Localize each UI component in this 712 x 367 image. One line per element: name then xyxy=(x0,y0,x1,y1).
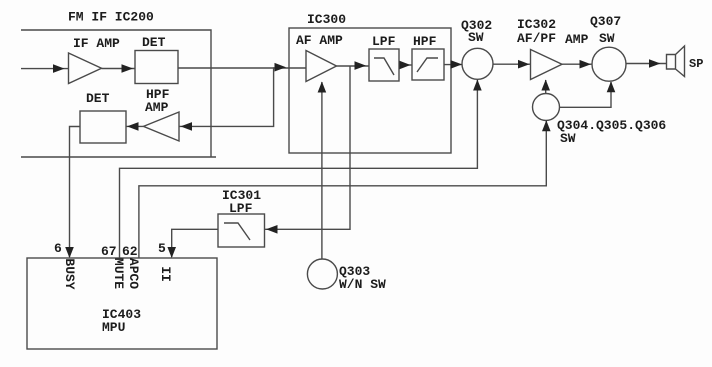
arrowhead up into Q302 bottom xyxy=(473,80,482,91)
wire tap down to HPF AMP input xyxy=(179,67,274,126)
svg-text:5: 5 xyxy=(158,241,166,256)
svg-text:MUTE: MUTE xyxy=(111,258,126,289)
arrowhead up into Q307 bottom xyxy=(607,81,616,92)
svg-text:LPF: LPF xyxy=(229,201,253,216)
speaker SP symbol xyxy=(667,46,685,77)
amplifier HPF AMP triangle xyxy=(144,112,180,141)
block IC403 MPU box xyxy=(27,258,217,349)
LPF response glyph xyxy=(374,58,394,75)
wire Q303 to AF AMP bottom xyxy=(321,82,323,259)
block IC200 box xyxy=(21,30,216,157)
svg-text:II: II xyxy=(158,266,173,282)
transistor Q303 W/N SW circle xyxy=(307,259,337,289)
arrowhead down into MPU pin 5 xyxy=(167,247,176,258)
wire DET to AF AMP xyxy=(178,67,306,69)
svg-text:FM IF IC200: FM IF IC200 xyxy=(68,10,154,25)
arrowhead up into Q304 circle bottom xyxy=(542,120,551,131)
arrowhead before DET xyxy=(122,64,134,73)
arrowhead up into IC302 bottom xyxy=(541,80,550,91)
svg-text:SW: SW xyxy=(599,31,615,46)
svg-text:IF AMP: IF AMP xyxy=(73,36,120,51)
transistor Q307 SW circle xyxy=(592,47,626,81)
amplifier IC302 AF/PF triangle xyxy=(531,50,563,80)
arrowhead IC302 to Q307 xyxy=(580,60,592,69)
svg-text:IC302: IC302 xyxy=(517,17,556,32)
svg-text:IC300: IC300 xyxy=(307,12,346,27)
arrowhead down into MPU pin 6 BUSY xyxy=(65,247,74,258)
wire tap AF AMP output down to IC301 input xyxy=(265,66,351,230)
amplifier IF AMP triangle xyxy=(69,53,102,84)
amplifier AF AMP triangle xyxy=(306,51,337,82)
svg-text:DET: DET xyxy=(86,91,110,106)
svg-text:BUSY: BUSY xyxy=(62,258,77,289)
wire input to IF AMP xyxy=(21,68,69,70)
block IC301 LPF box xyxy=(218,214,265,247)
wire Q307 to speaker xyxy=(626,63,667,65)
wire HPF AMP to DET lower xyxy=(126,125,144,127)
svg-text:HPF: HPF xyxy=(413,34,437,49)
svg-text:6: 6 xyxy=(54,241,62,256)
block DET box upper xyxy=(135,51,178,84)
svg-text:DET: DET xyxy=(142,35,166,50)
arrowhead HPF to Q302 xyxy=(451,60,463,69)
wire LPF to HPF xyxy=(399,64,412,66)
svg-text:62: 62 xyxy=(122,244,138,259)
arrowhead into HPF AMP xyxy=(181,122,193,131)
svg-text:AF AMP: AF AMP xyxy=(296,33,343,48)
filter HPF box IC300 xyxy=(412,49,444,80)
arrowhead before LPF xyxy=(355,61,367,70)
svg-text:67: 67 xyxy=(101,244,117,259)
IC301 LPF response glyph xyxy=(224,223,250,240)
arrowhead Q302 to IC302 xyxy=(518,60,530,69)
wire IF AMP to DET xyxy=(102,68,136,70)
wire DET lower to MPU BUSY pin 6 xyxy=(70,127,81,258)
svg-text:SW: SW xyxy=(468,30,484,45)
HPF response glyph xyxy=(417,58,438,72)
filter LPF box IC300 xyxy=(369,49,399,81)
wire Q304 circle to Q307 bottom xyxy=(560,82,612,107)
arrowhead into IC301 right side xyxy=(266,225,278,234)
wire MUTE pin 67 to Q302 bottom xyxy=(120,80,478,258)
block IC300 box xyxy=(289,28,451,153)
arrowhead input xyxy=(53,64,65,73)
wire APCO pin 62 to Q304 circle bottom xyxy=(139,121,546,258)
wire AF AMP to LPF xyxy=(337,65,370,67)
svg-text:MPU: MPU xyxy=(102,320,125,335)
svg-text:SW: SW xyxy=(560,131,576,146)
arrowhead up into AF AMP bottom xyxy=(318,82,327,93)
svg-text:AMP: AMP xyxy=(565,32,589,47)
arrowhead HPF AMP to DET lower xyxy=(127,122,139,131)
svg-text:AMP: AMP xyxy=(145,100,169,115)
svg-text:SP: SP xyxy=(689,57,703,71)
wire Q304 circle top to IC302 bottom xyxy=(545,80,547,94)
svg-text:W/N SW: W/N SW xyxy=(339,277,386,292)
wire Q302 to IC302 xyxy=(493,63,531,65)
arrowhead before AF AMP xyxy=(275,63,287,72)
svg-text:APCO: APCO xyxy=(126,258,141,289)
transistor Q302 SW circle xyxy=(462,48,493,79)
svg-text:AF/PF: AF/PF xyxy=(517,31,556,46)
wire HPF to Q302 xyxy=(444,64,462,66)
transistor Q304 Q305 Q306 SW circle xyxy=(533,94,560,121)
svg-text:Q307: Q307 xyxy=(590,14,621,29)
block DET box lower xyxy=(80,111,126,143)
svg-text:LPF: LPF xyxy=(372,34,396,49)
wire IC302 to Q307 xyxy=(562,63,592,65)
arrowhead Q307 to speaker xyxy=(649,59,661,68)
wire IC301 output to MPU pin 5 xyxy=(172,229,218,257)
arrowhead LPF to HPF xyxy=(400,61,411,70)
